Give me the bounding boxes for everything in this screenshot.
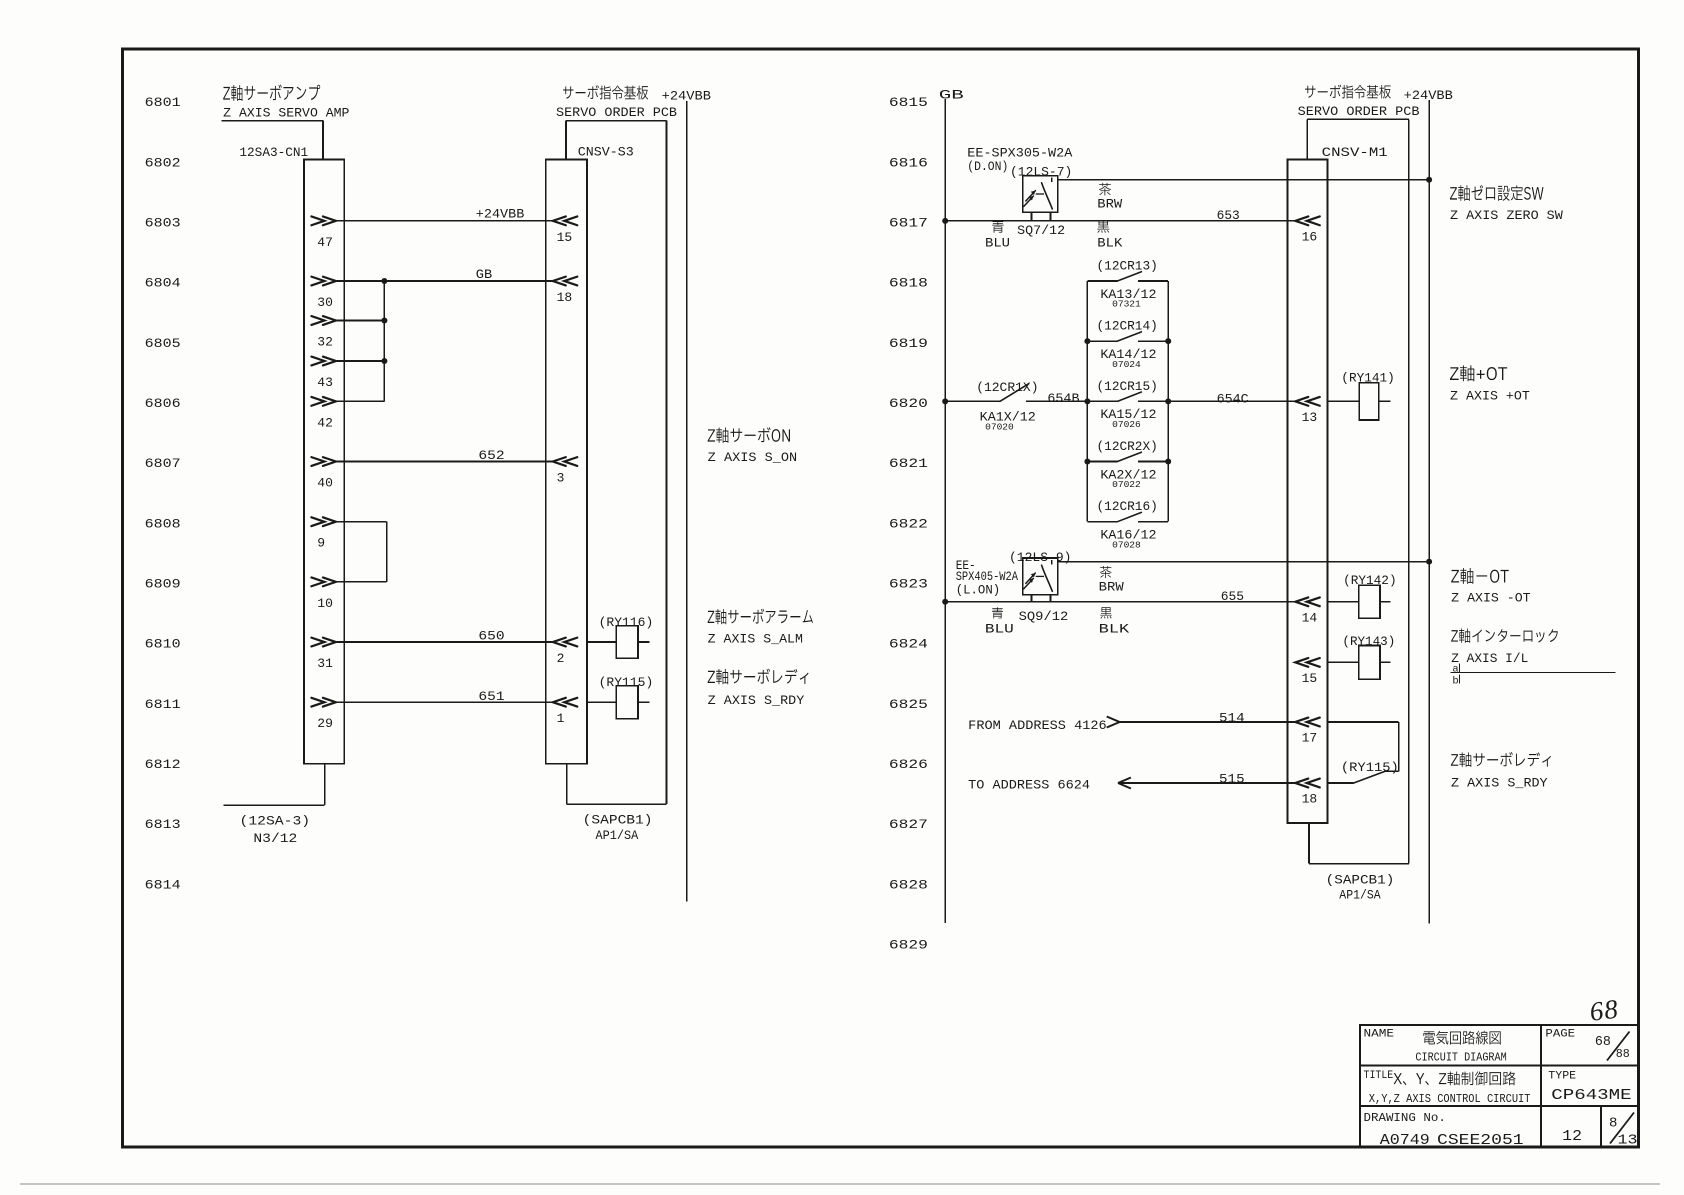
relay coil RY143 [1359,646,1380,680]
svg-text:88: 88 [1616,1047,1630,1061]
wire +24VBB 6803 pin47 to pin15 [311,216,336,225]
pin 10 stub [311,577,336,586]
leader from header underline to connector CNSV-S3 [565,121,567,160]
svg-text:15: 15 [557,230,573,245]
svg-text:(12CR16): (12CR16) [1097,499,1158,514]
svg-text:6817: 6817 [889,215,928,230]
wire 514 to pin17 [1107,717,1120,728]
svg-text:6802: 6802 [145,155,181,170]
svg-text:Z AXIS I/L: Z AXIS I/L [1451,651,1528,666]
underline of Z AXIS SERVO AMP header [222,120,324,122]
pin 42 stub [311,397,336,406]
signal label Z axis +OT (Japanese) [1450,365,1507,381]
svg-text:17: 17 [1302,731,1318,746]
svg-text:10: 10 [317,596,333,611]
svg-text:6808: 6808 [145,516,181,531]
signal label Z axis servo ready right (Japanese) [1451,752,1551,767]
GB bus vertical (right half) [944,99,946,923]
svg-text:6819: 6819 [889,336,928,351]
signal label Z axis -OT (Japanese) [1451,568,1509,584]
+24VBB bus line (right half) [1428,100,1430,924]
relay coil RY141 [1328,400,1360,402]
svg-text:29: 29 [317,716,333,731]
signal label Z axis servo ON (Japanese) [708,427,790,443]
signal label Z axis zero SW (Japanese) [1450,185,1544,201]
svg-text:6828: 6828 [889,877,928,892]
svg-text:6829: 6829 [889,937,928,952]
svg-text:07020: 07020 [985,421,1014,432]
label circuit diagram (Japanese) [1423,1031,1500,1045]
svg-text:6825: 6825 [889,697,928,712]
svg-text:68: 68 [1588,993,1620,1026]
svg-text:BLK: BLK [1097,235,1122,250]
svg-text:30: 30 [317,295,333,310]
svg-text:6826: 6826 [889,757,928,772]
signal label Z axis servo ready (Japanese) [708,669,809,685]
svg-text:07026: 07026 [1112,419,1141,430]
svg-text:6809: 6809 [145,576,181,591]
svg-text:TYPE: TYPE [1548,1070,1576,1082]
wire 654B GB to ladder with contact KA1X/12 [942,398,948,404]
connector CNSV-M1 body [1288,160,1328,823]
svg-text:a: a [1452,663,1458,675]
svg-text:CSEE2051: CSEE2051 [1437,1132,1524,1149]
svg-text:47: 47 [317,235,333,250]
svg-text:BRW: BRW [1097,196,1122,211]
relay contact (12CR14) KA14/12 [1087,340,1117,342]
svg-text:652: 652 [478,448,504,463]
relay contact RY115 [1328,782,1354,784]
svg-text:(SAPCB1): (SAPCB1) [1326,872,1395,887]
svg-text:6813: 6813 [145,817,181,832]
svg-text:TITLE: TITLE [1364,1070,1394,1082]
header label servo order PCB (Japanese) [563,85,648,99]
svg-text:AP1/SA: AP1/SA [1339,887,1381,902]
svg-text:6818: 6818 [889,276,928,291]
svg-text:GB: GB [939,88,964,103]
svg-text:CNSV-S3: CNSV-S3 [578,145,634,160]
junction dot GB 6817 [942,218,948,224]
svg-text:13: 13 [1302,410,1318,425]
svg-text:N3/12: N3/12 [253,831,297,846]
svg-text:Z AXIS +OT: Z AXIS +OT [1450,388,1530,403]
svg-text:BLK: BLK [1099,621,1130,636]
12SA3-CN1 bottom stub [324,764,326,806]
label kuro 2 (black kanji) [1100,607,1112,618]
svg-text:6823: 6823 [889,576,928,591]
svg-text:6827: 6827 [889,817,928,832]
svg-text:AP1/SA: AP1/SA [596,828,639,843]
svg-text:SERVO ORDER PCB: SERVO ORDER PCB [556,105,677,120]
PCB boundary bottom (left half) [567,803,667,805]
relay contact (12CR2X) KA2X/12 [1087,461,1117,463]
wire 655 GB to pin14 [945,601,1295,603]
svg-text:BLU: BLU [985,235,1010,250]
header label Z axis servo amp (Japanese) [223,85,320,102]
svg-text:A0749: A0749 [1380,1132,1430,1149]
svg-text:32: 32 [317,335,333,350]
PCB boundary right vertical (left half) [666,121,668,805]
svg-text:8: 8 [1609,1116,1617,1132]
svg-text:1: 1 [557,711,565,726]
svg-text:FROM ADDRESS 4126: FROM ADDRESS 4126 [968,718,1106,733]
wire 653 6817 GB to pin16 [945,220,1295,222]
junction dot +24VBB 6823 [1426,559,1432,565]
connector CNSV-S3 body [546,160,587,764]
wire pin15 to RY143 [1295,658,1320,667]
CNSV-S3 bottom stub to SAPCB1 [566,764,568,804]
svg-text:Z AXIS -OT: Z AXIS -OT [1451,591,1531,606]
junction dot GB 6823 [942,599,948,605]
svg-text:6804: 6804 [145,276,181,291]
svg-text:6821: 6821 [889,456,928,471]
pin 9 stub [311,517,336,526]
ladder junction dots [1084,398,1090,404]
svg-text:07321: 07321 [1112,299,1141,310]
ladder junction dots [1084,338,1090,344]
sensor SQ9 bottom stubs [1031,595,1033,602]
label ao 2 (blue kanji) [992,607,1003,618]
sensor SQ7 top wire to +24VBB [1058,179,1429,181]
loop vertical pins 9-10 [386,522,388,582]
svg-text:43: 43 [317,375,333,390]
svg-text:(12CR1X): (12CR1X) [976,380,1038,395]
svg-text:Z AXIS ZERO SW: Z AXIS ZERO SW [1450,208,1563,223]
svg-text:(12CR14): (12CR14) [1097,319,1158,334]
svg-text:6824: 6824 [889,637,928,652]
label ao (blue kanji) [992,220,1004,232]
svg-text:(D.ON): (D.ON) [967,159,1008,174]
relay coil RY115 (left) [587,701,616,703]
svg-text:9: 9 [317,536,325,551]
svg-text:(RY115): (RY115) [599,675,654,690]
svg-text:(12CR2X): (12CR2X) [1097,439,1158,454]
leader from header to CNSV-M1 [1306,119,1308,159]
contact ladder left rail [1086,281,1088,522]
title block row divider 1 [1360,1065,1639,1067]
svg-text:12SA3-CN1: 12SA3-CN1 [239,145,308,160]
junction dot pin43 [381,358,387,364]
CNSV-M1 bottom stub to SAPCB1 [1308,823,1310,864]
PCB boundary right vertical (right half) [1408,119,1410,863]
svg-text:514: 514 [1219,710,1245,725]
svg-text:PAGE: PAGE [1545,1028,1575,1040]
svg-text:(RY116): (RY116) [599,615,654,630]
svg-text:42: 42 [317,415,333,430]
svg-text:07022: 07022 [1112,479,1141,490]
svg-text:(12CR13): (12CR13) [1097,258,1158,273]
svg-text:NAME: NAME [1364,1028,1395,1040]
label cha (brown kanji) [1099,183,1111,196]
photo sensor SQ7/12 (12LS-7) [1023,176,1058,213]
svg-text:653: 653 [1217,208,1240,223]
svg-text:650: 650 [478,629,504,644]
svg-text:68: 68 [1595,1034,1611,1050]
svg-text:655: 655 [1221,589,1244,604]
svg-text:6815: 6815 [889,95,928,110]
svg-text:TO ADDRESS 6624: TO ADDRESS 6624 [968,778,1090,793]
svg-text:6822: 6822 [889,516,928,531]
pin 43 stub [311,357,336,366]
relay contact (12CR16) KA16/12 [1087,521,1117,523]
wire 515 from pin18 [1118,778,1131,789]
signal label Z axis servo alarm (Japanese) [708,609,813,625]
contact ladder right rail [1167,281,1169,522]
svg-text:(12SA-3): (12SA-3) [240,814,311,829]
photo sensor SQ9/12 (12LS-9) [1023,558,1058,595]
relay contact (12CR13) KA13/12 [1087,280,1117,282]
svg-text:(SAPCB1): (SAPCB1) [583,813,653,828]
wire GB 6804 pin30 to pin18 [311,277,336,286]
svg-text:SQ7/12: SQ7/12 [1017,223,1065,238]
+24VBB bus line (left half) [686,101,688,901]
svg-text:6806: 6806 [145,396,181,411]
label cha 2 (brown kanji) [1100,566,1111,578]
svg-text:b: b [1452,676,1458,688]
svg-text:6807: 6807 [145,456,181,471]
svg-text:Z AXIS SERVO AMP: Z AXIS SERVO AMP [223,105,349,120]
svg-text:6820: 6820 [889,396,928,411]
svg-text:Z AXIS S_ON: Z AXIS S_ON [708,450,797,465]
relay coil RY142 [1328,601,1359,603]
svg-text:(L.ON): (L.ON) [956,583,1001,598]
title block outer box [1360,1025,1639,1148]
title block column divider row3 [1600,1106,1602,1148]
svg-text:+24VBB: +24VBB [476,206,525,221]
svg-text:DRAWING No.: DRAWING No. [1364,1111,1446,1125]
leader to 12SA-3 label [224,804,325,806]
leader from header to connector 12SA3-CN1 [322,121,324,160]
sensor SQ9 top wire to +24VBB [1058,561,1429,563]
PCB boundary bottom (right half) [1309,863,1409,865]
junction dot pin32 [381,318,387,324]
svg-text:6803: 6803 [145,215,181,230]
svg-text:6801: 6801 [145,95,181,110]
junction dot GB pin30 [381,278,387,284]
svg-text:6814: 6814 [145,877,181,892]
svg-text:Z AXIS S_RDY: Z AXIS S_RDY [708,693,805,708]
pin 32 stub [311,316,336,325]
svg-text:BLU: BLU [985,621,1014,636]
svg-text:13: 13 [1618,1132,1638,1148]
faint paper fold line at bottom [20,1183,1660,1185]
svg-text:6810: 6810 [145,637,181,652]
svg-text:40: 40 [317,476,333,491]
svg-text:6816: 6816 [889,155,928,170]
junction dot +24VBB 6816 [1426,177,1432,183]
svg-text:654C: 654C [1217,392,1249,407]
svg-text:2: 2 [557,651,565,666]
svg-text:CIRCUIT DIAGRAM: CIRCUIT DIAGRAM [1415,1051,1506,1065]
underline of SERVO ORDER PCB header [566,120,667,122]
svg-text:6805: 6805 [145,336,181,351]
svg-text:X,Y,Z AXIS CONTROL CIRCUIT: X,Y,Z AXIS CONTROL CIRCUIT [1369,1092,1531,1106]
relay coil RY116 [587,641,616,643]
svg-text:515: 515 [1219,771,1245,786]
svg-text:15: 15 [1302,671,1318,686]
svg-text:CNSV-M1: CNSV-M1 [1322,145,1388,160]
svg-text:16: 16 [1302,229,1318,244]
svg-text:18: 18 [557,290,573,305]
svg-text:6811: 6811 [145,697,181,712]
svg-text:6812: 6812 [145,757,181,772]
label kuro (black kanji) [1097,220,1109,232]
svg-text:31: 31 [317,656,333,671]
svg-text:(RY115): (RY115) [1341,760,1399,775]
svg-text:651: 651 [478,689,504,704]
svg-text:CP643ME: CP643ME [1551,1087,1631,1104]
GB tie vertical 30-32-43-42 [383,281,385,401]
svg-text:12: 12 [1562,1129,1582,1145]
svg-text:SQ9/12: SQ9/12 [1019,609,1069,624]
ladder junction dots [1084,459,1090,465]
signal label Z axis interlock (Japanese) [1451,629,1558,643]
label XYZ axis control circuit (Japanese) [1394,1071,1516,1085]
wire pin17 to RY115 contact vertical [1328,721,1399,723]
svg-text:(12LS-7): (12LS-7) [1010,165,1072,180]
svg-text:07028: 07028 [1112,539,1141,550]
connector 12SA3-CN1 body [304,160,344,764]
header label servo order PCB right (Japanese) [1305,85,1391,99]
wire 651 6811 pin29 to pin1 [311,698,336,707]
wire 650 6810 pin31 to pin2 [311,638,336,647]
svg-text:(RY143): (RY143) [1342,634,1395,649]
svg-text:18: 18 [1302,792,1318,807]
svg-text:GB: GB [476,267,493,282]
svg-text:3: 3 [557,471,565,486]
svg-text:07024: 07024 [1112,359,1141,370]
svg-text:SERVO ORDER PCB: SERVO ORDER PCB [1298,104,1420,119]
svg-text:Z AXIS S_RDY: Z AXIS S_RDY [1451,775,1548,790]
sensor SQ7 bottom stubs [1031,212,1033,220]
svg-text:Z AXIS S_ALM: Z AXIS S_ALM [708,632,803,647]
svg-text:14: 14 [1302,610,1318,625]
svg-text:BRW: BRW [1099,580,1124,595]
svg-text:654B: 654B [1047,391,1079,406]
relay contact (12CR15) KA15/12 [1087,400,1117,402]
svg-text:(12CR15): (12CR15) [1097,379,1158,394]
wire 654C ladder to pin13 [1168,400,1295,402]
title block row divider 2 [1360,1105,1639,1107]
underline of SERVO ORDER PCB right [1307,118,1409,120]
wire 652 6807 pin40 to pin3 [311,457,336,466]
title block column divider [1540,1025,1542,1148]
